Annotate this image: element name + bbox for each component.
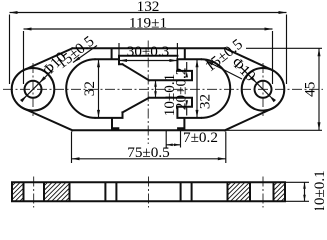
svg-text:45: 45 [302,82,319,97]
svg-text:132: 132 [137,0,160,15]
svg-text:119±1: 119±1 [129,15,167,32]
svg-text:30±0.3: 30±0.3 [127,43,170,60]
svg-text:75±0.5: 75±0.5 [127,144,170,161]
svg-text:32: 32 [81,81,98,96]
svg-text:20±0.2: 20±0.2 [173,68,190,111]
svg-text:10±0.1: 10±0.1 [311,170,327,210]
svg-text:7±0.2: 7±0.2 [183,129,218,146]
svg-text:32: 32 [197,94,214,109]
